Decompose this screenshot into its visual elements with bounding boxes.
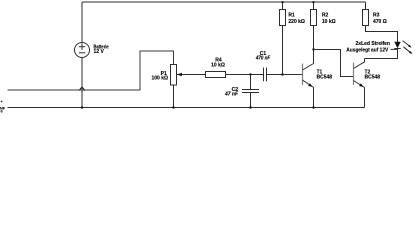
- svg-text:Ausgelegt auf 12V: Ausgelegt auf 12V: [346, 48, 389, 54]
- node T1 collector / T2 base: [312, 48, 314, 50]
- battery B1: [75, 43, 90, 58]
- svg-text:100 kΩ: 100 kΩ: [151, 76, 168, 82]
- wire wiper to R4: [182, 74, 206, 76]
- wire R3 to LED: [366, 26, 398, 43]
- svg-text:47 nF: 47 nF: [224, 92, 239, 98]
- svg-text:BC548: BC548: [365, 75, 381, 81]
- svg-text:12 V: 12 V: [94, 49, 105, 55]
- node R1 top: [281, 1, 283, 3]
- node T1 emitter-ground: [312, 106, 314, 108]
- capacitor C1: [264, 68, 267, 82]
- svg-text:2xLed Streifen: 2xLed Streifen: [356, 41, 390, 47]
- svg-text:R2: R2: [322, 13, 329, 19]
- svg-text:0: 0: [1, 109, 3, 113]
- transistor T2: [354, 59, 365, 88]
- svg-text:10 kΩ: 10 kΩ: [211, 62, 225, 68]
- wire T1 emitter lead: [313, 88, 315, 108]
- node P1-ground: [172, 106, 174, 108]
- wire battery bottom lead: [81, 58, 83, 108]
- svg-text:470 Ω: 470 Ω: [373, 19, 387, 25]
- wire R1 bottom lead: [282, 26, 284, 75]
- svg-text:R3: R3: [373, 13, 380, 19]
- node R2 top: [312, 1, 314, 3]
- wire ground bus: [8, 107, 365, 109]
- svg-text:R1: R1: [288, 13, 295, 19]
- wire battery top lead: [81, 2, 83, 43]
- resistor R4: [206, 72, 226, 78]
- wire R2 top lead: [313, 2, 315, 10]
- node C2-ground: [249, 106, 251, 108]
- wire T1 collector to T2 base: [314, 50, 354, 77]
- wire C1 to T1 base: [267, 74, 303, 76]
- node battery-ground: [81, 106, 83, 108]
- svg-text:BC548: BC548: [317, 75, 333, 81]
- svg-text:470 nF: 470 nF: [255, 56, 271, 62]
- wire R2 bottom lead: [313, 26, 315, 50]
- wire NF+ input line: [8, 51, 174, 90]
- svg-text:220 kΩ: 220 kΩ: [288, 19, 305, 25]
- arrow junction on NF line: [79, 87, 85, 90]
- wire T2 emitter lead: [364, 88, 366, 108]
- wire C2 top lead: [250, 75, 252, 90]
- LED D1: [391, 41, 413, 55]
- wire LED cathode to T2 collector: [365, 49, 398, 59]
- wire R3 top lead: [365, 2, 367, 10]
- potentiometer P1: [171, 65, 182, 86]
- transistor T1: [303, 64, 314, 88]
- node C2 tap: [249, 73, 251, 75]
- resistor R3: [363, 10, 369, 26]
- wire top supply bus: [82, 1, 366, 3]
- wire collector riser: [313, 50, 315, 64]
- wire R4 to C1: [226, 74, 264, 76]
- resistor R1: [280, 10, 286, 26]
- wire C2 bottom lead: [250, 93, 252, 108]
- svg-text:10 kΩ: 10 kΩ: [322, 19, 336, 25]
- wire R1 top lead: [282, 2, 284, 10]
- wire P1 bottom lead: [173, 85, 175, 108]
- svg-text:+: +: [1, 100, 4, 104]
- capacitor C2: [242, 90, 259, 93]
- node R1 tap: [281, 73, 283, 75]
- resistor R2: [311, 10, 317, 26]
